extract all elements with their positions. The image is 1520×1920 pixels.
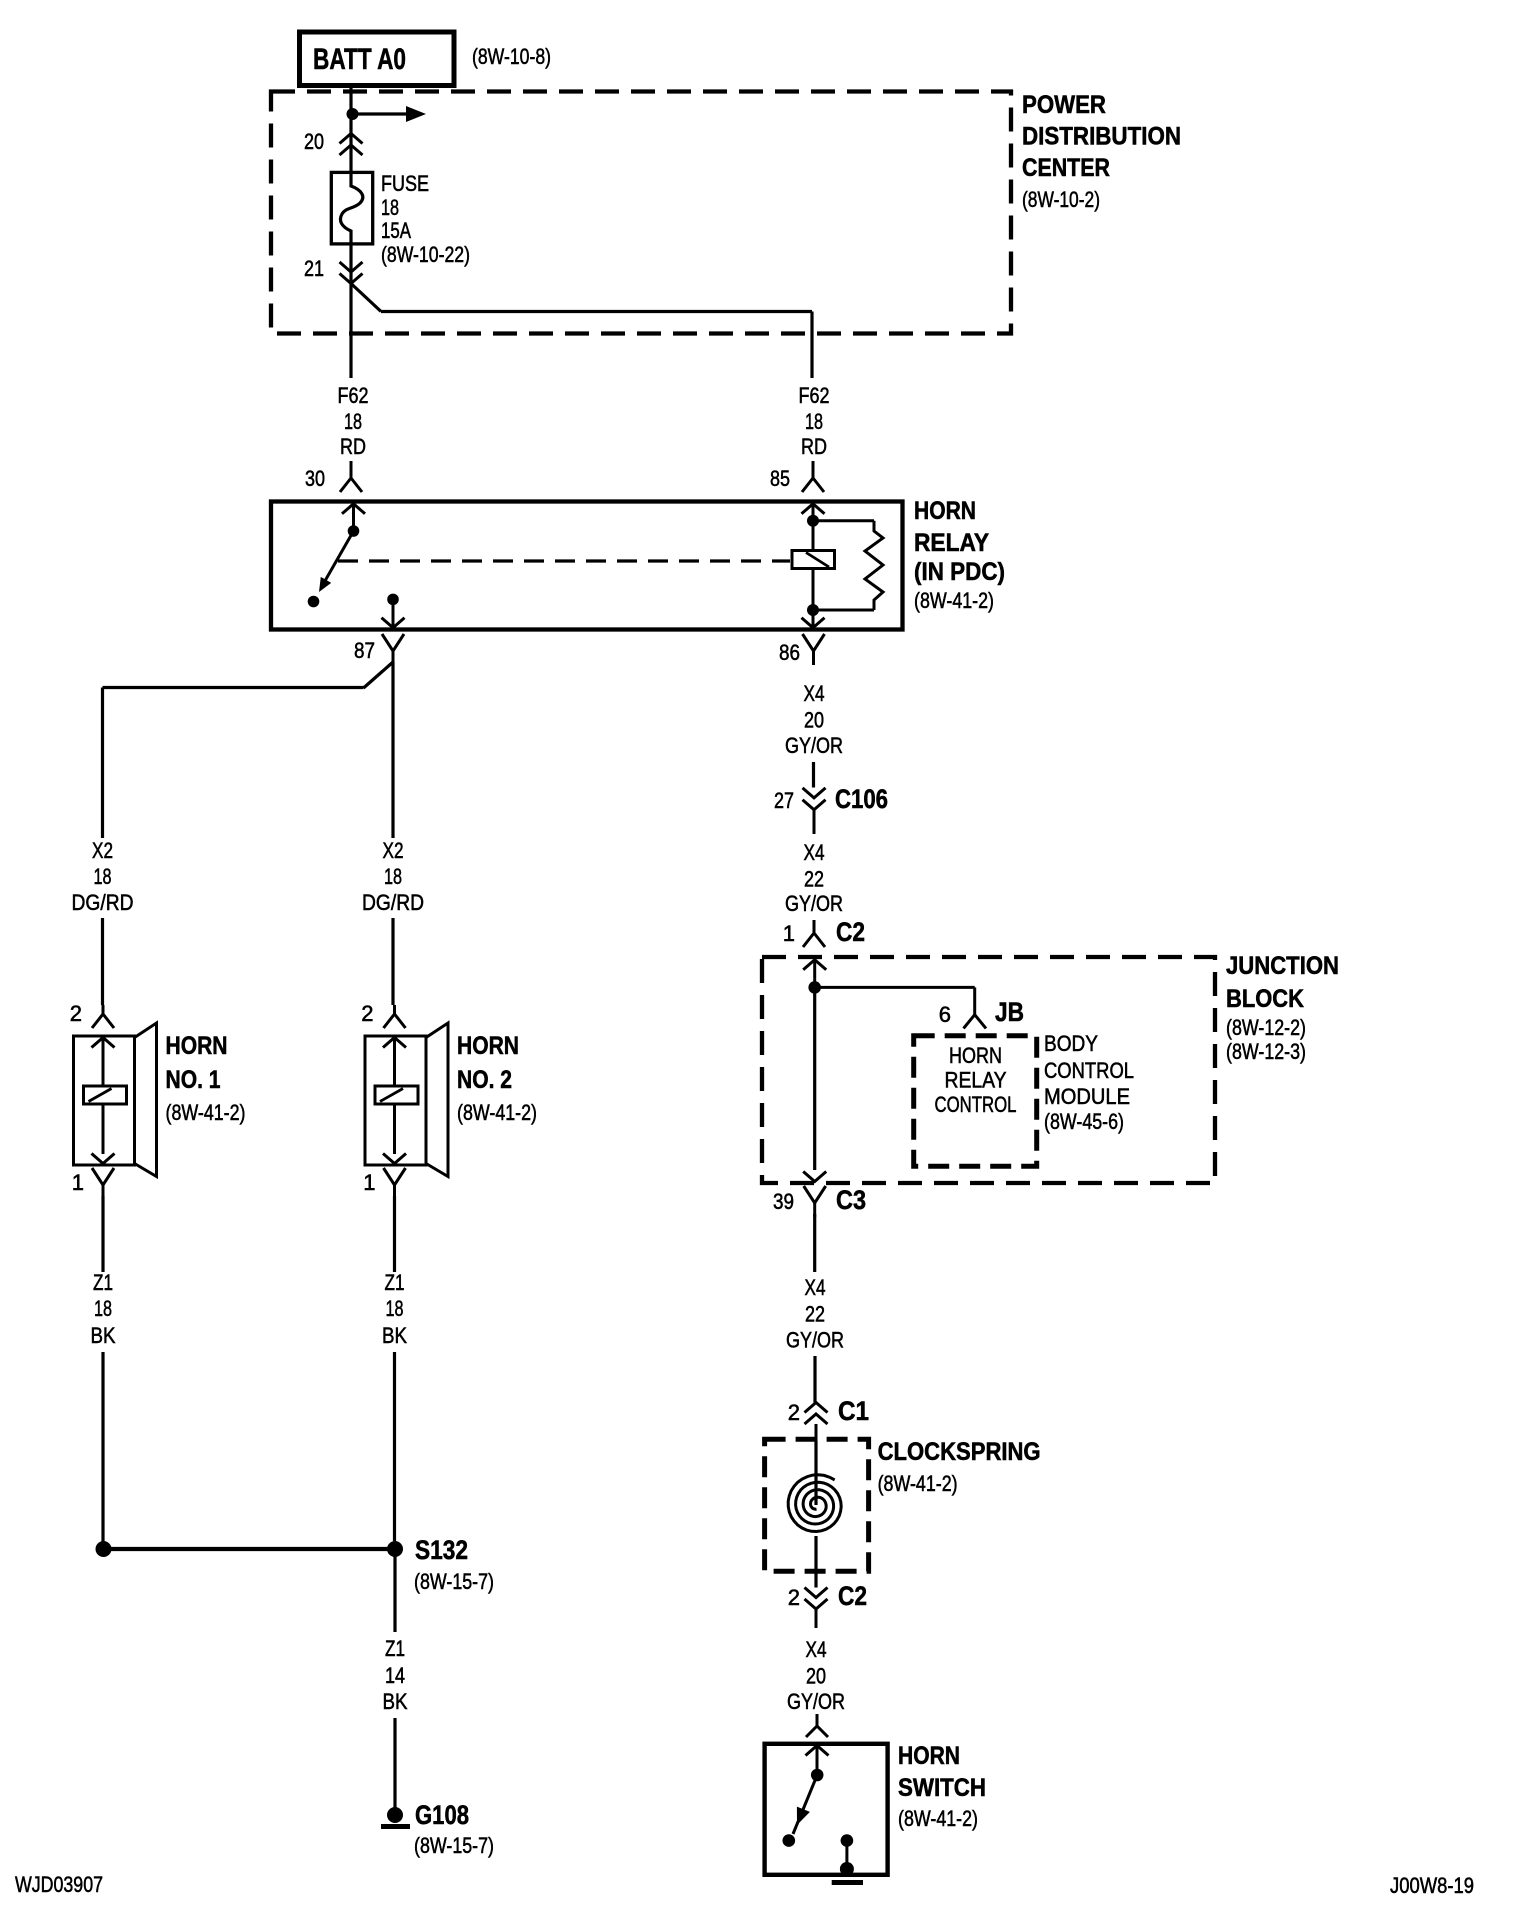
svg-text:22: 22 — [804, 867, 824, 892]
svg-text:(8W-41-2): (8W-41-2) — [914, 588, 994, 613]
svg-text:POWER: POWER — [1022, 91, 1106, 119]
svg-text:86: 86 — [779, 640, 800, 665]
svg-text:JUNCTION: JUNCTION — [1226, 952, 1339, 980]
svg-text:X4: X4 — [805, 1275, 826, 1300]
svg-text:F62: F62 — [799, 383, 830, 408]
svg-text:CONTROL: CONTROL — [935, 1092, 1017, 1117]
svg-text:GY/OR: GY/OR — [785, 733, 843, 758]
svg-text:CONTROL: CONTROL — [1044, 1058, 1134, 1083]
svg-text:2: 2 — [788, 1400, 800, 1425]
svg-text:20: 20 — [804, 708, 824, 733]
svg-text:C3: C3 — [836, 1185, 866, 1215]
svg-text:JB: JB — [995, 997, 1024, 1027]
svg-text:20: 20 — [806, 1664, 826, 1689]
svg-text:RELAY: RELAY — [914, 529, 989, 557]
svg-text:HORN: HORN — [457, 1032, 519, 1060]
svg-text:(8W-45-6): (8W-45-6) — [1044, 1109, 1124, 1134]
svg-text:Z1: Z1 — [93, 1270, 113, 1295]
svg-text:BODY: BODY — [1044, 1031, 1098, 1056]
svg-text:18: 18 — [386, 1296, 404, 1321]
svg-text:NO. 2: NO. 2 — [457, 1066, 512, 1094]
svg-text:X4: X4 — [804, 840, 825, 865]
svg-text:F62: F62 — [338, 383, 369, 408]
svg-text:DISTRIBUTION: DISTRIBUTION — [1022, 123, 1181, 151]
svg-text:22: 22 — [805, 1302, 825, 1327]
svg-text:CLOCKSPRING: CLOCKSPRING — [878, 1438, 1041, 1466]
svg-text:14: 14 — [385, 1663, 405, 1688]
svg-text:BK: BK — [91, 1323, 116, 1348]
svg-text:(8W-41-2): (8W-41-2) — [898, 1806, 978, 1831]
svg-text:15A: 15A — [381, 218, 411, 243]
svg-text:HORN: HORN — [949, 1043, 1002, 1068]
svg-text:1: 1 — [72, 1170, 84, 1195]
svg-text:RD: RD — [340, 434, 366, 459]
svg-text:(8W-41-2): (8W-41-2) — [457, 1100, 537, 1125]
svg-text:BK: BK — [383, 1689, 408, 1714]
svg-text:(8W-10-2): (8W-10-2) — [1022, 187, 1100, 212]
svg-text:X2: X2 — [383, 838, 404, 863]
svg-text:DG/RD: DG/RD — [72, 890, 134, 915]
svg-text:27: 27 — [774, 788, 794, 813]
svg-text:C1: C1 — [838, 1396, 869, 1426]
svg-text:HORN: HORN — [166, 1032, 228, 1060]
svg-text:(8W-41-2): (8W-41-2) — [878, 1471, 958, 1496]
svg-text:(8W-15-7): (8W-15-7) — [414, 1833, 494, 1858]
svg-text:HORN: HORN — [914, 497, 976, 525]
svg-text:87: 87 — [354, 638, 375, 663]
svg-text:GY/OR: GY/OR — [786, 1328, 844, 1353]
svg-text:C2: C2 — [836, 917, 865, 947]
svg-text:18: 18 — [94, 864, 112, 889]
svg-text:21: 21 — [304, 256, 324, 281]
svg-text:S132: S132 — [415, 1535, 468, 1565]
svg-text:1: 1 — [363, 1170, 375, 1195]
svg-text:RELAY: RELAY — [945, 1068, 1007, 1093]
svg-text:30: 30 — [305, 466, 325, 491]
svg-text:(8W-10-22): (8W-10-22) — [381, 242, 470, 267]
svg-text:(8W-15-7): (8W-15-7) — [414, 1569, 494, 1594]
svg-text:18: 18 — [344, 409, 362, 434]
svg-text:6: 6 — [939, 1002, 951, 1027]
svg-text:(8W-12-3): (8W-12-3) — [1226, 1039, 1306, 1064]
svg-text:BLOCK: BLOCK — [1226, 985, 1304, 1013]
svg-text:Z1: Z1 — [385, 1270, 405, 1295]
svg-text:18: 18 — [94, 1296, 112, 1321]
svg-text:1: 1 — [783, 921, 795, 946]
svg-text:DG/RD: DG/RD — [362, 890, 424, 915]
svg-text:2: 2 — [361, 1001, 373, 1026]
svg-text:20: 20 — [304, 129, 324, 154]
svg-text:Z1: Z1 — [385, 1636, 405, 1661]
svg-text:(IN PDC): (IN PDC) — [914, 558, 1005, 586]
svg-text:(8W-41-2): (8W-41-2) — [166, 1100, 246, 1125]
svg-text:(8W-10-8): (8W-10-8) — [472, 44, 551, 69]
svg-text:39: 39 — [773, 1189, 794, 1214]
svg-text:X4: X4 — [806, 1637, 827, 1662]
svg-text:18: 18 — [805, 409, 823, 434]
svg-text:CENTER: CENTER — [1022, 154, 1110, 182]
svg-text:2: 2 — [70, 1001, 82, 1026]
svg-text:X4: X4 — [804, 681, 825, 706]
svg-text:C2: C2 — [838, 1581, 867, 1611]
svg-text:HORN: HORN — [898, 1742, 960, 1770]
svg-text:GY/OR: GY/OR — [785, 891, 843, 916]
svg-text:RD: RD — [801, 434, 827, 459]
svg-text:NO. 1: NO. 1 — [166, 1066, 221, 1094]
svg-text:GY/OR: GY/OR — [787, 1689, 845, 1714]
svg-text:85: 85 — [770, 466, 790, 491]
svg-text:G108: G108 — [415, 1800, 469, 1830]
svg-text:18: 18 — [381, 195, 399, 220]
svg-text:18: 18 — [384, 864, 402, 889]
svg-text:J00W8-19: J00W8-19 — [1390, 1873, 1474, 1898]
svg-text:BATT A0: BATT A0 — [313, 43, 406, 76]
svg-text:C106: C106 — [835, 784, 888, 814]
svg-text:WJD03907: WJD03907 — [15, 1872, 103, 1897]
svg-text:2: 2 — [788, 1585, 800, 1610]
svg-text:(8W-12-2): (8W-12-2) — [1226, 1015, 1306, 1040]
svg-text:X2: X2 — [92, 838, 113, 863]
svg-text:MODULE: MODULE — [1044, 1084, 1130, 1109]
svg-text:SWITCH: SWITCH — [898, 1774, 986, 1802]
svg-text:BK: BK — [382, 1323, 407, 1348]
svg-text:FUSE: FUSE — [381, 171, 429, 196]
